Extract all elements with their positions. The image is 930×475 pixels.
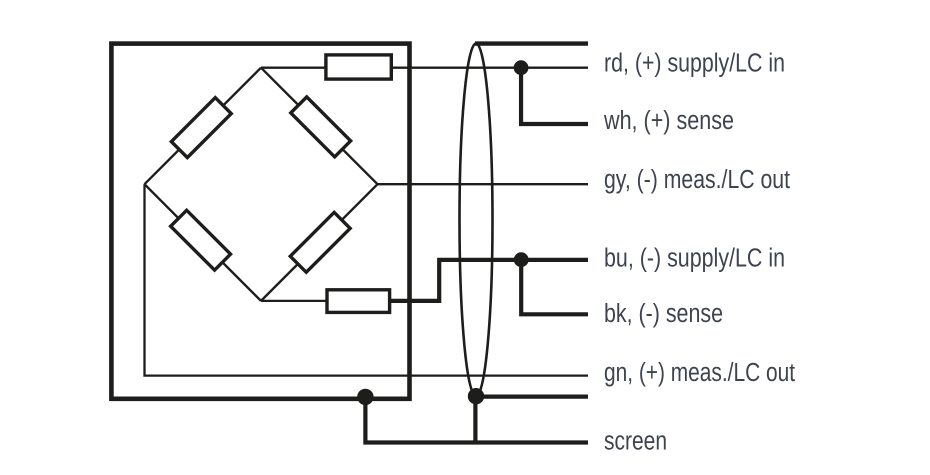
wire: screen net from cable ellipse bottom junction down: [473, 396, 477, 442]
wire: bridge bottom vertex to R6 left lead: [261, 300, 328, 302]
wire: gy net, bridge right vertex to terminal: [378, 183, 589, 185]
bridge arm upper-left: diamond side wire: [145, 68, 262, 185]
junction dot: rd/wh node: [514, 60, 529, 75]
wire: wh net branch from rd junction down and right to terminal: [521, 68, 588, 124]
svg-text:gn, (+) meas./LC out: gn, (+) meas./LC out: [604, 359, 795, 387]
svg-text:bk, (-) sense: bk, (-) sense: [604, 300, 723, 328]
svg-text:wh, (+) sense: wh, (+) sense: [603, 107, 734, 135]
bridge arm lower-left: diamond side wire: [145, 184, 262, 301]
bridge arm lower-right: diamond side wire: [261, 184, 378, 301]
junction dot: housing to screen node: [357, 389, 373, 405]
resistor R2 (upper-right bridge arm strain gauge): [291, 97, 351, 157]
resistor R4 (lower-right bridge arm strain gauge): [290, 212, 350, 272]
resistor R5 (series compensation resistor, top): [326, 55, 391, 79]
wire: screen net from housing junction down and right to terminal: [365, 397, 588, 443]
bridge arm upper-right: diamond side wire: [261, 68, 378, 185]
cable sheath top line: [475, 41, 588, 45]
svg-text:rd, (+) supply/LC in: rd, (+) supply/LC in: [604, 50, 785, 78]
load cell housing box: [111, 44, 409, 399]
svg-text:gy, (-) meas./LC out: gy, (-) meas./LC out: [604, 166, 790, 194]
cable screen ellipse: [460, 43, 493, 396]
wire: bu net from R6 right lead up and right to terminal: [391, 260, 588, 301]
resistor R6 (series compensation resistor, bottom): [327, 290, 390, 313]
wire: bridge top vertex to R5 left lead: [261, 67, 327, 69]
wire: gn net vertical from bridge left vertex: [145, 184, 589, 375]
svg-text:screen: screen: [604, 428, 667, 456]
resistor R3 (lower-left bridge arm strain gauge): [171, 210, 231, 270]
wire: bk net branch from bu junction down and right to terminal: [521, 260, 588, 315]
resistor R1 (upper-left bridge arm strain gauge): [171, 98, 231, 158]
wire: rd net, R5 right lead through housing and cable to terminal: [391, 67, 588, 69]
junction dot: bu/bk node: [514, 252, 529, 267]
junction dot: cable screen node: [468, 388, 484, 404]
cable sheath bottom line: [476, 395, 588, 399]
svg-text:bu, (-) supply/LC in: bu, (-) supply/LC in: [604, 245, 785, 273]
